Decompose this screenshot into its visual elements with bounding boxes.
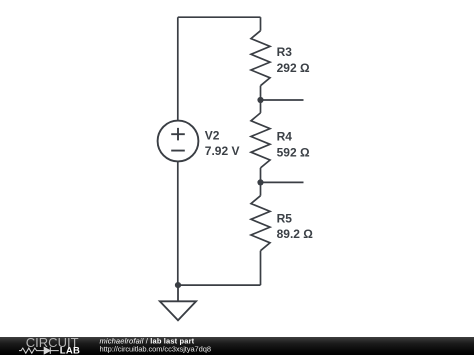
resistor R5 bbox=[251, 196, 270, 251]
wire R4 to R5 bbox=[260, 168, 262, 196]
node B junction bbox=[257, 179, 263, 185]
wire left upper bbox=[177, 17, 179, 120]
ground node junction bbox=[175, 282, 181, 288]
wire R3 to R4 bbox=[260, 86, 262, 113]
footer bar bbox=[0, 337, 474, 355]
wire top bbox=[178, 16, 261, 18]
ground bbox=[160, 285, 196, 320]
wire left lower bbox=[177, 161, 179, 285]
wire R5 bottom lead bbox=[260, 251, 262, 285]
svg-text:http://circuitlab.com/cc3xsjty: http://circuitlab.com/cc3xsjtya7dq8 bbox=[100, 344, 211, 353]
wire stub node B bbox=[261, 181, 304, 183]
resistor R4 bbox=[251, 113, 270, 168]
resistor R3 bbox=[251, 31, 270, 86]
wire right top lead bbox=[260, 17, 262, 31]
node A junction bbox=[257, 97, 263, 103]
svg-text:LAB: LAB bbox=[60, 346, 80, 355]
wire stub node A bbox=[261, 99, 304, 101]
voltage source V2 bbox=[158, 121, 199, 162]
wire bottom bbox=[178, 284, 261, 286]
